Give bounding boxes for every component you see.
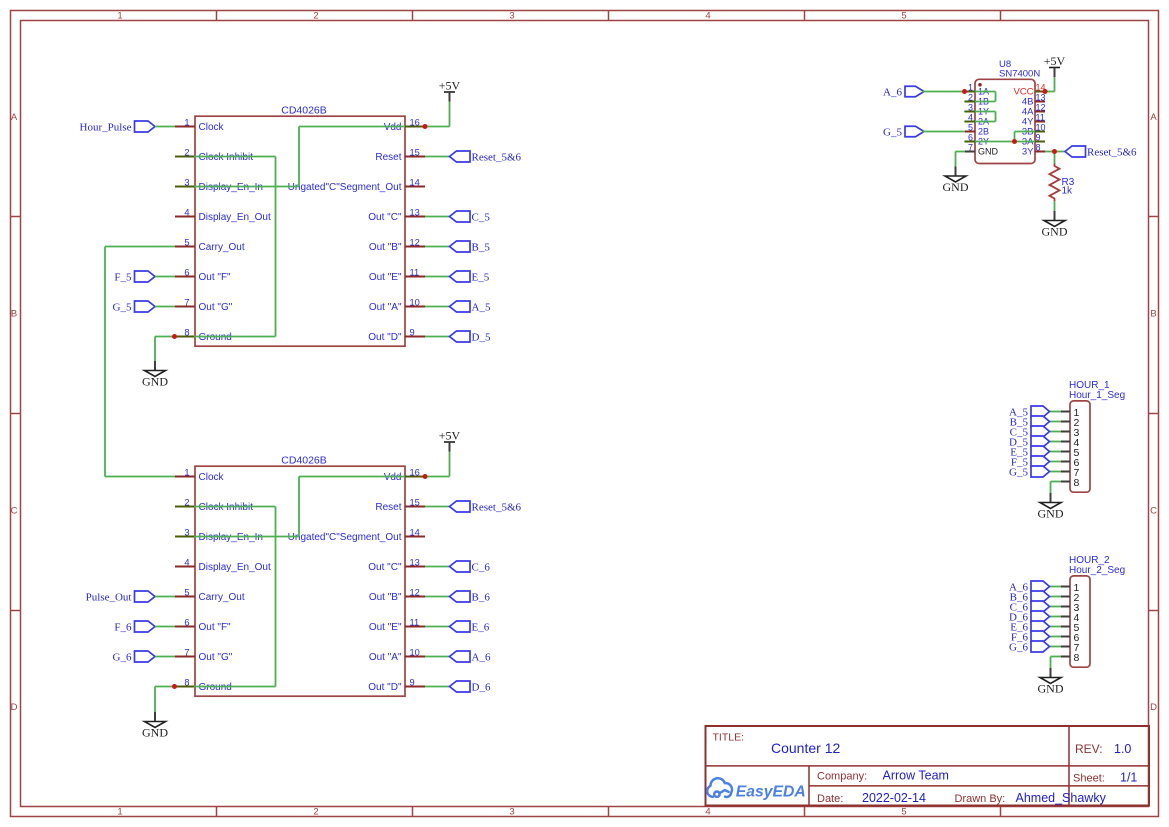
svg-text:Reset: Reset — [375, 502, 401, 513]
svg-text:A_5: A_5 — [472, 301, 491, 313]
svg-text:C: C — [1150, 505, 1157, 516]
svg-text:G_5: G_5 — [113, 301, 132, 313]
svg-text:Out "G": Out "G" — [199, 652, 233, 663]
svg-text:15: 15 — [410, 147, 420, 157]
svg-text:Reset_5&6: Reset_5&6 — [472, 151, 522, 163]
svg-text:EasyEDA: EasyEDA — [736, 783, 806, 800]
svg-text:C_6: C_6 — [472, 561, 491, 573]
svg-text:14: 14 — [410, 177, 420, 187]
svg-text:Out "F": Out "F" — [199, 622, 232, 633]
svg-text:GND: GND — [943, 180, 969, 194]
svg-text:Carry_Out: Carry_Out — [199, 242, 245, 253]
svg-text:Company:: Company: — [817, 771, 867, 783]
svg-text:3: 3 — [509, 10, 514, 21]
svg-text:Date:: Date: — [817, 793, 843, 805]
svg-text:Drawn By:: Drawn By: — [955, 793, 1006, 805]
svg-text:B: B — [11, 309, 17, 320]
svg-text:Out "G": Out "G" — [199, 302, 233, 313]
svg-text:REV:: REV: — [1075, 742, 1103, 756]
svg-text:8: 8 — [1036, 143, 1041, 153]
svg-text:12: 12 — [1036, 103, 1046, 113]
svg-text:5: 5 — [901, 10, 906, 21]
svg-text:12: 12 — [410, 237, 420, 247]
svg-text:G_6: G_6 — [113, 651, 132, 663]
svg-text:Ungated"C"Segment_Out: Ungated"C"Segment_Out — [288, 182, 402, 193]
svg-text:+5V: +5V — [439, 429, 461, 443]
svg-text:1: 1 — [184, 117, 189, 127]
svg-text:SN7400N: SN7400N — [999, 69, 1040, 80]
svg-text:Hour_Pulse: Hour_Pulse — [80, 121, 132, 133]
svg-text:GND: GND — [142, 375, 168, 389]
svg-text:A: A — [11, 112, 18, 123]
svg-text:9: 9 — [410, 327, 415, 337]
svg-text:10: 10 — [410, 647, 420, 657]
svg-text:GND: GND — [1038, 507, 1064, 521]
svg-text:GND: GND — [1042, 225, 1068, 239]
svg-text:Carry_Out: Carry_Out — [199, 592, 245, 603]
svg-text:D_5: D_5 — [472, 331, 491, 343]
svg-text:+5V: +5V — [1044, 54, 1066, 68]
svg-text:TITLE:: TITLE: — [713, 732, 745, 744]
svg-text:Out "A": Out "A" — [369, 302, 402, 313]
svg-text:1k: 1k — [1062, 186, 1074, 197]
svg-text:Display_En_Out: Display_En_Out — [199, 562, 271, 573]
svg-text:B: B — [1150, 309, 1156, 320]
svg-text:4: 4 — [184, 207, 189, 217]
svg-text:A_6: A_6 — [472, 651, 491, 663]
svg-text:1.0: 1.0 — [1114, 742, 1131, 756]
svg-text:GND: GND — [1038, 682, 1064, 696]
svg-text:Out "A": Out "A" — [369, 652, 402, 663]
svg-text:6: 6 — [184, 267, 189, 277]
svg-text:E_6: E_6 — [472, 621, 490, 633]
svg-text:D_6: D_6 — [472, 681, 491, 693]
svg-text:GND: GND — [142, 726, 168, 740]
svg-text:Display_En_Out: Display_En_Out — [199, 212, 271, 223]
svg-text:11: 11 — [410, 617, 420, 627]
svg-text:5: 5 — [968, 123, 973, 133]
svg-text:7: 7 — [184, 297, 189, 307]
svg-text:11: 11 — [1036, 113, 1045, 123]
svg-text:CD4026B: CD4026B — [281, 455, 327, 467]
svg-text:Reset_5&6: Reset_5&6 — [472, 501, 522, 513]
svg-text:Ungated"C"Segment_Out: Ungated"C"Segment_Out — [288, 532, 402, 543]
svg-text:C_5: C_5 — [472, 211, 491, 223]
svg-text:B_5: B_5 — [472, 241, 491, 253]
svg-text:Out "E": Out "E" — [369, 272, 402, 283]
svg-text:Hour_2_Seg: Hour_2_Seg — [1069, 565, 1125, 576]
svg-text:5: 5 — [184, 237, 189, 247]
svg-text:A_6: A_6 — [883, 86, 902, 98]
svg-text:Counter 12: Counter 12 — [771, 740, 840, 756]
svg-text:5: 5 — [184, 587, 189, 597]
svg-text:E_5: E_5 — [472, 271, 490, 283]
svg-text:9: 9 — [410, 677, 415, 687]
svg-text:D: D — [11, 702, 18, 713]
svg-text:Sheet:: Sheet: — [1073, 773, 1105, 785]
svg-text:Arrow Team: Arrow Team — [883, 769, 949, 783]
svg-text:Out "B": Out "B" — [369, 242, 402, 253]
svg-text:13: 13 — [410, 557, 420, 567]
svg-text:15: 15 — [410, 497, 420, 507]
svg-text:1: 1 — [117, 10, 122, 21]
svg-text:6: 6 — [184, 617, 189, 627]
svg-text:8: 8 — [1074, 652, 1080, 664]
svg-text:7: 7 — [184, 647, 189, 657]
svg-text:Out "C": Out "C" — [368, 212, 402, 223]
svg-text:Out "F": Out "F" — [199, 272, 232, 283]
svg-text:Pulse_Out: Pulse_Out — [86, 591, 132, 603]
svg-text:Out "C": Out "C" — [368, 562, 402, 573]
svg-text:F_5: F_5 — [114, 271, 132, 283]
svg-text:Out "D": Out "D" — [368, 682, 402, 693]
svg-text:3: 3 — [509, 807, 514, 818]
svg-text:11: 11 — [410, 267, 420, 277]
svg-text:A: A — [1150, 112, 1157, 123]
svg-text:4: 4 — [705, 10, 710, 21]
svg-text:Clock: Clock — [199, 122, 225, 133]
svg-text:7: 7 — [968, 143, 973, 153]
svg-text:3Y: 3Y — [1022, 147, 1034, 158]
svg-text:12: 12 — [410, 587, 420, 597]
svg-text:4: 4 — [705, 807, 710, 818]
svg-text:5: 5 — [901, 807, 906, 818]
svg-text:+5V: +5V — [439, 79, 461, 93]
svg-text:Reset_5&6: Reset_5&6 — [1087, 146, 1137, 158]
svg-text:2022-02-14: 2022-02-14 — [862, 791, 926, 805]
svg-text:Out "E": Out "E" — [369, 622, 402, 633]
svg-text:1: 1 — [117, 807, 122, 818]
svg-text:14: 14 — [410, 527, 420, 537]
svg-text:13: 13 — [410, 207, 420, 217]
svg-text:Hour_1_Seg: Hour_1_Seg — [1069, 390, 1125, 401]
svg-text:2: 2 — [313, 10, 318, 21]
svg-text:Reset: Reset — [375, 152, 401, 163]
svg-text:10: 10 — [410, 297, 420, 307]
svg-text:Out "D": Out "D" — [368, 332, 402, 343]
svg-text:C: C — [11, 505, 18, 516]
svg-text:1/1: 1/1 — [1120, 771, 1137, 785]
svg-text:G_5: G_5 — [1009, 466, 1028, 478]
svg-text:Ahmed_Shawky: Ahmed_Shawky — [1016, 791, 1107, 805]
svg-text:F_6: F_6 — [114, 621, 132, 633]
svg-text:G_5: G_5 — [883, 126, 902, 138]
svg-text:GND: GND — [978, 147, 999, 157]
svg-text:13: 13 — [1036, 93, 1046, 103]
svg-text:1: 1 — [184, 467, 189, 477]
svg-text:Clock: Clock — [199, 472, 225, 483]
svg-text:CD4026B: CD4026B — [281, 105, 327, 117]
svg-text:B_6: B_6 — [472, 591, 491, 603]
svg-text:2B: 2B — [978, 127, 989, 137]
svg-text:D: D — [1150, 702, 1157, 713]
svg-text:2: 2 — [313, 807, 318, 818]
svg-text:G_6: G_6 — [1009, 641, 1028, 653]
svg-text:8: 8 — [1074, 477, 1080, 489]
svg-text:4: 4 — [184, 557, 189, 567]
svg-text:Out "B": Out "B" — [369, 592, 402, 603]
